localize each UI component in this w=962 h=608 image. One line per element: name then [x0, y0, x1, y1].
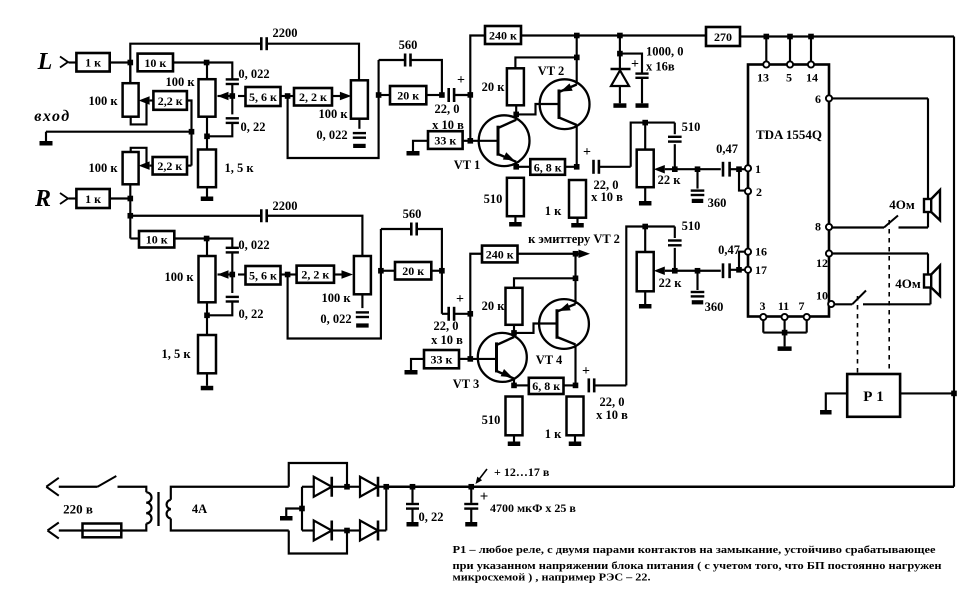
svg-text:0, 22: 0, 22 — [419, 510, 444, 524]
VT4 base wire from node J2 — [514, 324, 557, 333]
resistor R30 240k (R) — [482, 246, 518, 263]
VT1 collector wire to R12 — [515, 105, 517, 120]
IC U1 TDA1554Q body — [748, 65, 829, 317]
svg-text:х 10 в: х 10 в — [431, 333, 463, 347]
wire node H down to VT1 base node — [469, 95, 471, 141]
relay P1 coil box — [847, 374, 900, 417]
wire switch to transformer — [118, 487, 147, 493]
svg-text:VT 4: VT 4 — [536, 353, 563, 367]
node E2 junction — [285, 272, 291, 278]
ground below R6 — [206, 187, 208, 196]
relay right wire to V+ line — [900, 392, 954, 394]
capacitor C9 360 (L) — [696, 169, 698, 188]
mains switch blade — [98, 476, 117, 487]
node junction 2200 line (R) — [128, 213, 134, 219]
svg-text:+: + — [457, 73, 465, 88]
svg-text:20 к: 20 к — [482, 299, 506, 313]
node M junction — [513, 164, 519, 170]
svg-text:+ 12…17 в: + 12…17 в — [494, 465, 550, 479]
capacitor C29 360 (R) — [696, 271, 698, 290]
mains input arrow top — [46, 478, 59, 487]
svg-text:20 к: 20 к — [397, 88, 419, 102]
node I junction VT1 base — [468, 138, 474, 144]
transistor VT1 (NPN) — [479, 115, 530, 166]
resistor R34 510 (R) — [506, 397, 523, 436]
wire C8 down to wiper line — [674, 144, 676, 169]
capacitor C11 1000.0x16v — [620, 54, 642, 73]
svg-text:+: + — [582, 364, 590, 379]
svg-text:510: 510 — [682, 219, 701, 233]
svg-text:2, 2 к: 2, 2 к — [299, 90, 327, 104]
wire up from C7 to pot R16 top line — [631, 123, 646, 167]
resistor R7 5.6k (L) — [246, 87, 281, 106]
svg-text:1 к: 1 к — [85, 56, 101, 70]
svg-text:5, 6 к: 5, 6 к — [249, 90, 277, 104]
VT4 collector wire down to node L2 — [574, 345, 576, 386]
svg-text:0, 022: 0, 022 — [238, 238, 269, 252]
capacitor C30 0.47 (R) — [722, 263, 725, 278]
ground below R26 — [206, 373, 208, 386]
capacitor C10 0.47 (L) — [722, 162, 725, 177]
svg-text:510: 510 — [682, 120, 701, 134]
wire R30 to arrow - to VT2 emitter — [518, 253, 577, 255]
pin 6 wire to speaker 1 top — [832, 97, 928, 99]
resistor R26 1.5k (R) — [206, 315, 208, 335]
resistor R1 1k (L) — [76, 53, 109, 72]
wire C26 to node H2 — [454, 313, 470, 315]
svg-text:240 к: 240 к — [486, 247, 514, 261]
protection diode VD1 — [619, 54, 621, 69]
wire R input to R21 — [69, 197, 77, 199]
relay contact K1.1 blade — [884, 216, 898, 228]
ground symbol at input — [45, 132, 47, 141]
wire R27 to node E2 — [281, 273, 288, 275]
svg-text:560: 560 — [399, 38, 418, 52]
DC output rail — [386, 486, 954, 488]
transformer T1 core — [157, 492, 159, 526]
svg-text:0, 022: 0, 022 — [316, 128, 347, 142]
svg-text:33 к: 33 к — [431, 352, 453, 366]
svg-text:4Ом: 4Ом — [889, 197, 915, 212]
junction ground bus — [189, 129, 195, 135]
svg-text:VT 3: VT 3 — [453, 377, 480, 391]
node H junction — [468, 92, 474, 98]
svg-text:+: + — [631, 57, 639, 72]
svg-text:6: 6 — [815, 92, 821, 106]
wiper arrow of pot R5a 100k (L bass) — [218, 92, 229, 101]
pin 10 wire to contact K1.2 — [834, 303, 852, 305]
wire R1 to node A — [110, 61, 131, 63]
junction 1000uF node on rail — [617, 33, 623, 39]
svg-text:22 к: 22 к — [658, 173, 682, 187]
node K2 junction — [573, 276, 579, 282]
speaker BA1 4 Ohm — [924, 199, 931, 212]
svg-text:10 к: 10 к — [144, 56, 166, 70]
capacitor C21 2200 (R) — [260, 209, 263, 222]
node G junction — [439, 92, 445, 98]
svg-text:100 к: 100 к — [165, 75, 195, 89]
svg-text:к эмиттеру VT 2: к эмиттеру VT 2 — [528, 232, 620, 246]
potentiometer R3 100k (L volume) — [129, 63, 131, 84]
node N2 junction — [642, 224, 648, 230]
AC crossover top — [289, 463, 347, 487]
wire node E to R8 — [288, 95, 294, 97]
svg-text:0, 22: 0, 22 — [241, 120, 266, 134]
feedback loop wire node E2 to node F2 — [288, 229, 381, 339]
potentiometer R36 22k (R level) — [644, 227, 646, 253]
svg-text:VT 2: VT 2 — [538, 64, 565, 78]
pin 2 terminal — [745, 188, 751, 194]
svg-text:270: 270 — [714, 30, 732, 44]
capacitor C8 510 (L) — [674, 123, 676, 135]
node C junction — [230, 93, 236, 99]
wire node N to 510 cap — [645, 122, 675, 124]
capacitor C3 0.22 (L) — [231, 96, 233, 114]
bridge left arm — [301, 487, 303, 531]
svg-text:х 16в: х 16в — [646, 60, 675, 74]
wire C6 to node H — [454, 94, 470, 96]
input terminal R chevron — [60, 193, 68, 204]
resistor R9 20k (L) — [379, 94, 390, 96]
svg-text:1000, 0: 1000, 0 — [646, 45, 684, 59]
ground symbol below IC — [778, 346, 792, 351]
speaker BA1 bottom lead — [927, 212, 929, 228]
resistor R32 20k (R load) — [506, 288, 523, 325]
svg-text:2, 2 к: 2, 2 к — [301, 268, 329, 282]
wire R7 to node E — [281, 95, 288, 97]
resistor R23 2.2k (R wiper) — [153, 157, 187, 175]
svg-text:0, 22: 0, 22 — [239, 307, 264, 321]
svg-text:20 к: 20 к — [402, 264, 424, 278]
V+ rail right of 270 — [740, 35, 954, 37]
resistor R8 2.2k (L) — [294, 88, 332, 106]
wiper arrow of R36 — [654, 267, 665, 276]
svg-text:16: 16 — [755, 245, 767, 259]
wire R5a bottom to node D — [206, 117, 208, 137]
wire R32 top to VT4 emitter line — [514, 278, 576, 288]
svg-text:микросхемой ) , например РЭС –: микросхемой ) , например РЭС – 22. — [453, 571, 651, 583]
bridge diode VD2 — [302, 486, 314, 488]
svg-text:TDA 1554Q: TDA 1554Q — [756, 127, 822, 142]
secondary top wire — [171, 487, 289, 500]
node L2 junction — [573, 383, 579, 389]
node junction diode/cap — [617, 51, 623, 57]
wire R25a bottom to node D2 — [206, 302, 208, 315]
svg-text:17: 17 — [755, 263, 767, 277]
fuse FU1 — [83, 524, 122, 538]
node A2 junction — [128, 196, 134, 202]
input ground wire — [46, 131, 192, 133]
svg-text:13: 13 — [757, 71, 769, 85]
wire R4 to ground bus — [187, 101, 192, 132]
svg-text:х 10 в: х 10 в — [591, 190, 623, 204]
dashed linkage line contact K1.1 — [888, 220, 890, 374]
svg-text:0, 022: 0, 022 — [238, 67, 269, 81]
node K junction — [574, 55, 580, 61]
pin 12 terminal — [826, 250, 832, 256]
wire contact to speaker 2 bottom — [863, 303, 931, 305]
wire node B to treble cap chain — [207, 63, 233, 79]
relay left wire to ground — [826, 393, 847, 410]
resistor R10 240k (L) — [485, 26, 521, 44]
resistor R17 270 — [706, 27, 740, 46]
wire C10 to pins 1 2 — [729, 168, 745, 170]
resistor R21 1k (R) — [76, 189, 109, 208]
pin 7 terminal — [804, 314, 810, 320]
svg-text:1: 1 — [755, 162, 761, 176]
svg-text:510: 510 — [484, 192, 503, 206]
wire node G2 down to C26 — [441, 271, 443, 314]
pin 16 terminal — [745, 249, 751, 255]
capacitor C2 0.022 (L) — [226, 78, 239, 80]
svg-text:вход: вход — [34, 108, 70, 125]
wire node H2 up to R30 — [470, 254, 482, 314]
node O junction on wiper line — [672, 166, 678, 172]
V+ rail from R10 to IC — [521, 34, 706, 36]
wire C1 to top of pot R5 — [267, 44, 359, 81]
bridge ground tap — [299, 506, 305, 512]
capacitor C1 2200 (L) — [260, 37, 263, 50]
svg-text:VT 1: VT 1 — [454, 158, 481, 172]
bridge diode VD5 — [347, 529, 360, 531]
wire C28 down to wiper line R — [674, 248, 676, 271]
resistor R14 510 (L) — [507, 178, 524, 216]
relay contact K1.2 blade — [852, 291, 866, 305]
junction C12 — [410, 484, 416, 490]
svg-text:+: + — [456, 292, 464, 307]
dashed linkage line contact K1.2 — [857, 296, 859, 374]
ground below R36 — [644, 291, 646, 304]
wire node A2 down to 2200 line — [129, 199, 131, 216]
wire R11 right to node I — [463, 140, 471, 142]
AC crossover bottom — [289, 531, 347, 554]
node I2 junction VT3 base — [468, 356, 474, 362]
wire C30 to pins 16 17 — [729, 269, 745, 271]
svg-text:4700 мкФ х 25 в: 4700 мкФ х 25 в — [490, 501, 576, 515]
wire R21 to node A2 — [110, 197, 131, 199]
wire C5 to node G — [411, 60, 442, 95]
capacitor C24 0.022 below R25 — [361, 294, 363, 308]
capacitor C22 0.022 (R) — [226, 247, 239, 249]
mains input arrow bottom — [48, 523, 59, 531]
VT1 emitter wire to node M — [515, 162, 517, 167]
svg-text:3: 3 — [760, 299, 766, 313]
pin 14 wire — [810, 37, 812, 65]
right edge V+ down wire — [953, 37, 955, 487]
svg-text:0,47: 0,47 — [718, 243, 740, 257]
node H2 junction — [468, 311, 474, 317]
wire fuse to transformer — [121, 524, 146, 531]
svg-text:8: 8 — [815, 220, 821, 234]
wire node H up to R10 — [470, 36, 485, 95]
bridge diode VD4 — [302, 529, 314, 531]
wire C7 to mid column — [599, 166, 631, 168]
resistor R33 6.8k (R) — [529, 378, 564, 394]
feedback loop wire node E to amp input node F — [288, 60, 379, 158]
pin 8 terminal — [826, 224, 832, 230]
wire node I2 to VT3 base — [470, 358, 495, 360]
svg-text:220 в: 220 в — [63, 502, 93, 517]
potentiometer R25a 100k (R bass) — [199, 256, 216, 302]
resistor R24 10k (R) — [130, 237, 139, 239]
node F2 junction — [378, 268, 384, 274]
svg-text:+: + — [583, 145, 591, 160]
node B junction — [204, 60, 210, 66]
svg-text:7: 7 — [799, 299, 805, 313]
arrow to emitter of VT2 — [576, 253, 580, 255]
svg-text:х 10 в: х 10 в — [432, 118, 464, 132]
node G2 junction — [439, 268, 445, 274]
resistor R29 20k (R) — [381, 270, 395, 272]
node DC+ top junction — [383, 484, 389, 490]
wire R24 to node B2 — [174, 237, 206, 239]
wire node H2 down to VT3 base node — [469, 314, 471, 359]
capacitor C28 510 (R) — [674, 227, 676, 239]
ground below C24 — [356, 323, 369, 327]
node J2 junction — [511, 330, 517, 336]
pin 10 terminal — [828, 301, 834, 307]
wire C2 to node C — [231, 85, 233, 96]
resistor R2 10k (L) — [138, 54, 173, 72]
pin 6 terminal — [826, 95, 832, 101]
capacitor C23 0.22 (R) — [231, 275, 233, 294]
node E junction — [285, 93, 291, 99]
wire node B down to R5a top — [206, 63, 208, 80]
node N junction — [642, 120, 648, 126]
resistor R12 20k (L load) — [507, 68, 524, 105]
svg-text:240 к: 240 к — [489, 28, 517, 42]
svg-text:22 к: 22 к — [659, 276, 683, 290]
wire to C21 2200 (R) — [130, 215, 261, 217]
resistor R15 1k (L) — [569, 180, 586, 218]
pin 8 wire to contact K1.1 — [832, 226, 884, 228]
svg-text:10: 10 — [816, 289, 828, 303]
svg-text:1 к: 1 к — [85, 192, 101, 206]
wire R8 to wiper of R5 with arrow — [332, 95, 343, 97]
wire C25 to node G2 — [417, 229, 442, 271]
node AC2 junction — [344, 528, 350, 534]
pin 1 terminal — [745, 165, 751, 171]
wire up from C27 to pot R36 top line — [626, 227, 645, 386]
branch wire to pin 2 — [739, 169, 745, 190]
svg-text:33 к: 33 к — [434, 133, 456, 147]
pin 17 terminal — [745, 267, 751, 273]
node D junction — [204, 134, 210, 140]
svg-text:L: L — [37, 49, 53, 75]
transformer T1 secondary winding — [167, 500, 171, 509]
wire ground bus down to R-channel 2.2k — [190, 132, 192, 166]
pin 13 wire — [765, 37, 767, 65]
svg-text:100 к: 100 к — [88, 161, 118, 175]
svg-text:100 к: 100 к — [321, 291, 351, 305]
pin 3 terminal — [760, 314, 766, 320]
svg-text:6, 8 к: 6, 8 к — [532, 379, 560, 393]
junction VT2 emitter on rail — [574, 33, 580, 39]
wire node N2 to 510 cap R — [645, 225, 675, 227]
junction C13 — [468, 484, 474, 490]
svg-text:360: 360 — [708, 196, 727, 210]
node C2 junction — [230, 272, 236, 278]
wire node B2 to treble cap chain R — [207, 239, 233, 248]
VT3 collector wire to R32 — [513, 325, 515, 337]
resistor R35 1k (R) — [567, 397, 584, 436]
node B2 junction — [204, 236, 210, 242]
wire to C30 — [698, 270, 721, 272]
svg-text:6, 8 к: 6, 8 к — [534, 160, 562, 174]
svg-text:14: 14 — [806, 71, 818, 85]
pin 11 terminal — [782, 314, 788, 320]
svg-text:4Ом: 4Ом — [895, 276, 921, 291]
svg-text:560: 560 — [403, 207, 422, 221]
svg-text:5: 5 — [786, 71, 792, 85]
resistor R11 33k (L) — [428, 131, 463, 149]
node F junction — [376, 92, 382, 98]
node P2 junction — [736, 267, 742, 273]
svg-text:12: 12 — [816, 256, 828, 270]
ground below R16 — [644, 187, 646, 201]
capacitor C12 0.22 — [411, 487, 413, 503]
wire C21 to top of pot R25 — [267, 216, 362, 256]
wire R11 left to ground — [413, 141, 428, 151]
transistor VT3 (NPN) — [478, 333, 527, 382]
transformer T1 primary winding — [146, 492, 151, 502]
junctions on wiper line R — [672, 268, 678, 274]
wire down to diode and cap — [619, 36, 621, 54]
svg-text:2,2 к: 2,2 к — [157, 159, 182, 173]
svg-text:5, 6 к: 5, 6 к — [249, 269, 277, 283]
svg-text:22, 0: 22, 0 — [434, 319, 459, 333]
wire R28 to wiper of R25 with arrow — [334, 273, 344, 275]
VT2 base wire from node J — [516, 104, 559, 114]
wire R31 left to ground — [411, 359, 424, 370]
ground below C4 — [353, 144, 366, 148]
resistor R31 33k (R) — [424, 350, 459, 368]
bridge diode VD3 — [347, 486, 360, 488]
wiper arrow of R16 — [654, 165, 665, 174]
wire node I to VT1 base — [470, 140, 496, 142]
VT3 emitter wire to node M2 — [513, 379, 515, 386]
svg-text:22, 0: 22, 0 — [435, 102, 460, 116]
wire R23 to ground bus — [187, 165, 192, 167]
wire node O to C10 — [698, 168, 721, 170]
wiper arrow of R3 with tie to bottom — [139, 96, 150, 105]
potentiometer R22 100k (R volume) — [123, 152, 139, 184]
wiper arrow of R22 with tie to top — [139, 161, 150, 170]
junction relay on V+ line — [951, 391, 957, 397]
input terminal L chevron — [60, 57, 68, 68]
pin 5 wire — [789, 37, 791, 65]
svg-text:1 к: 1 к — [545, 204, 562, 218]
capacitor C26 22.0x10v (R) — [442, 313, 448, 315]
node M2 junction — [511, 383, 517, 389]
node D2 junction — [204, 313, 210, 319]
svg-text:0, 022: 0, 022 — [320, 312, 351, 326]
bridge right arm — [385, 487, 387, 531]
pin 12 wire to speaker 2 top — [832, 252, 928, 254]
potentiometer R5 100k (L treble) — [351, 80, 368, 118]
capacitor C27 22.0x10v (R out) — [587, 378, 590, 392]
resistor R4 2.2k (L wiper) — [153, 91, 187, 110]
mains wire to switch — [59, 486, 98, 488]
transistor VT2 (PNP) — [540, 79, 590, 129]
svg-text:1, 5 к: 1, 5 к — [224, 161, 254, 175]
speaker BA2 4 Ohm — [924, 275, 931, 288]
capacitor C13 4700uF x 25v — [470, 487, 472, 503]
VT2 emitter wire to V+ rail — [576, 36, 578, 85]
svg-text:22, 0: 22, 0 — [600, 395, 625, 409]
wire contact to speaker 1 bottom — [899, 226, 929, 228]
svg-text:2200: 2200 — [273, 26, 298, 40]
